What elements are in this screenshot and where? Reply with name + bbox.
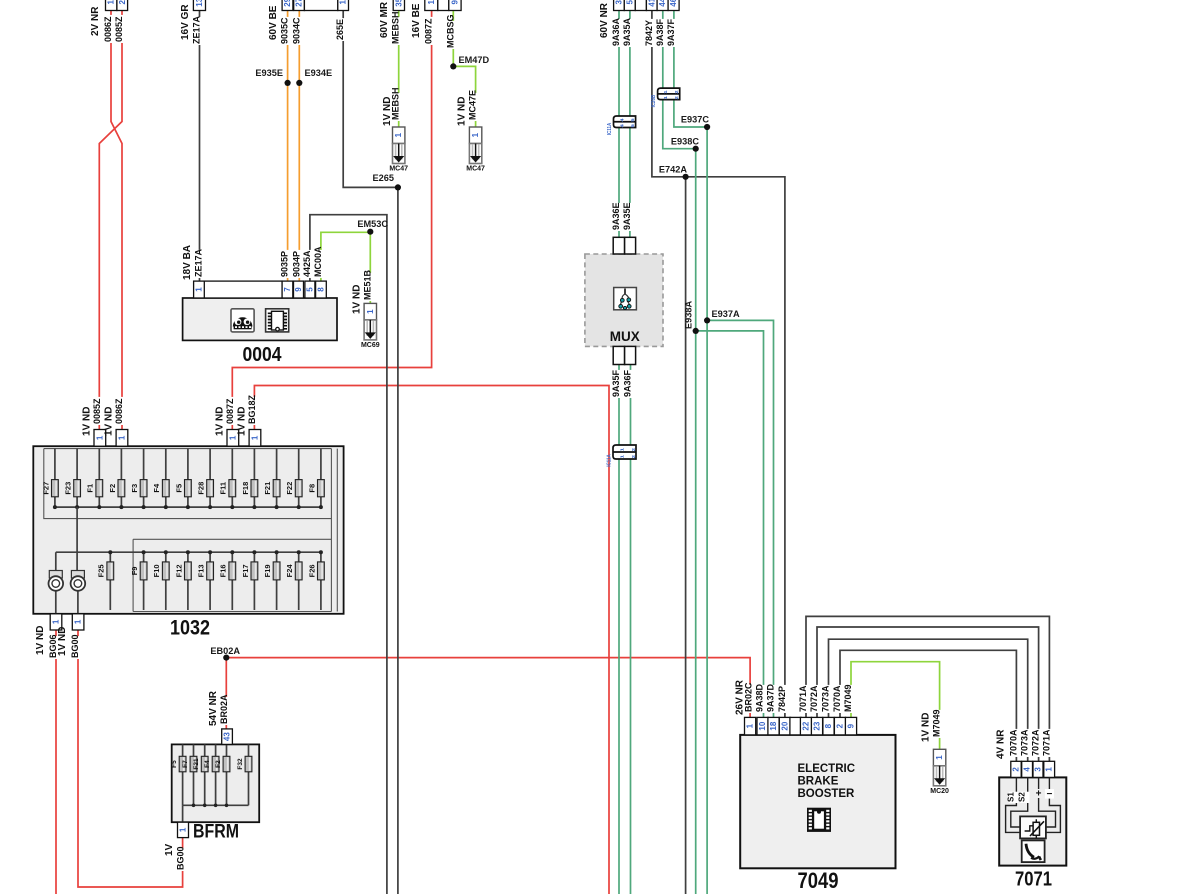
label S1 [1009, 792, 1019, 803]
wire 7072A (7049 pin 23 to 7071 pin 3) [817, 627, 1039, 761]
MUX top pin cells [613, 237, 624, 254]
wire label 9A36E [614, 203, 624, 231]
svg-text:2V NR: 2V NR [90, 6, 101, 36]
wire label 9A36F [626, 370, 636, 398]
wire label BG00 (BFRM) [179, 848, 189, 871]
svg-text:9A36A: 9A36A [611, 17, 621, 46]
wire BG06 (1032 to bottom edge) [55, 630, 57, 894]
component 1032 (body) [33, 446, 343, 614]
svg-text:MC20: MC20 [930, 788, 949, 795]
svg-text:0087Z: 0087Z [225, 398, 235, 424]
splice E938A [693, 328, 699, 334]
wire label ZE17A [195, 17, 205, 45]
svg-text:MCBSG: MCBSG [445, 15, 455, 49]
1032 pin (0087Z) [227, 430, 239, 447]
svg-text:0086Z: 0086Z [103, 16, 113, 42]
fuse F12 [185, 562, 192, 580]
1032 bottom bus [56, 551, 321, 553]
svg-text:9035P: 9035P [280, 251, 290, 277]
fuse F19 [273, 562, 280, 580]
svg-text:3: 3 [1034, 767, 1043, 772]
BFRM fuse wires and bus [182, 744, 184, 805]
wire label 9A36A [614, 19, 624, 47]
svg-text:9A35F: 9A35F [611, 369, 621, 397]
wire label 7073A (7071) [1023, 729, 1033, 757]
svg-text:MC47: MC47 [389, 166, 408, 173]
svg-text:F13: F13 [197, 564, 206, 577]
7049 pin 2 [834, 717, 845, 735]
svg-text:0085Z: 0085Z [114, 16, 124, 42]
splice E935E [285, 80, 291, 86]
wire 9A37F continuation to bottom edge [706, 127, 708, 894]
wire MEBSH (to ground MC47) [398, 11, 400, 128]
svg-text:E938C: E938C [671, 137, 699, 147]
wire label MEBSH (at ground) [394, 93, 404, 121]
svg-text:18V BA: 18V BA [182, 245, 193, 280]
wire 0086Z (top pin 1 to 1032, crosses) [111, 11, 122, 433]
svg-text:IC26B: IC26B [651, 95, 657, 108]
wire label MC47E [471, 93, 481, 121]
svg-text:1: 1 [935, 755, 944, 760]
svg-text:54V NR: 54V NR [208, 690, 219, 726]
wire label BR02A [222, 697, 232, 725]
wire 9A38F continuation to bottom edge [695, 149, 697, 894]
splice E934E [296, 80, 302, 86]
svg-text:23: 23 [813, 721, 822, 730]
0004 pin 8 [316, 281, 327, 298]
svg-text:4: 4 [619, 118, 624, 122]
pin 1 (0087Z) [425, 0, 438, 11]
svg-text:F5: F5 [174, 484, 183, 493]
svg-text:1: 1 [619, 447, 624, 451]
svg-text:IC11A: IC11A [607, 454, 613, 467]
wire BR02A (EB02A to BFRM pin 43) [225, 658, 227, 729]
svg-text:29: 29 [283, 0, 292, 7]
wire 0085Z (top pin 2 to 1032, crosses) [99, 11, 122, 433]
wire label 7072A (7071) [1034, 729, 1044, 757]
svg-text:1: 1 [663, 90, 668, 94]
1032 pin (0086Z) [116, 430, 128, 447]
fuse F22 [295, 480, 302, 497]
wire label ME51B [366, 273, 376, 301]
pin 2 (0085Z) [117, 0, 128, 11]
svg-text:1: 1 [746, 723, 755, 728]
svg-text:1: 1 [394, 132, 403, 137]
svg-text:1V ND: 1V ND [457, 97, 468, 126]
wire label 265E [338, 18, 348, 41]
fuse F21 [273, 480, 280, 497]
wire label 0086Z (at 1032) [117, 397, 127, 425]
svg-text:MC47: MC47 [466, 166, 485, 173]
splice E742A [683, 174, 689, 180]
0004 relay icon [231, 309, 254, 332]
wire label 9035P [283, 250, 293, 278]
svg-text:BG18Z: BG18Z [247, 394, 257, 424]
svg-text:BRAKE: BRAKE [798, 776, 839, 788]
wire label 9A35F [614, 370, 624, 398]
svg-text:2: 2 [1012, 767, 1021, 772]
svg-text:7070A: 7070A [1008, 729, 1018, 756]
svg-text:18: 18 [769, 721, 778, 730]
wire label 0085Z [117, 15, 127, 43]
svg-text:9A36F: 9A36F [623, 369, 633, 397]
svg-text:5: 5 [625, 0, 634, 4]
svg-text:9A35E: 9A35E [622, 202, 632, 230]
wire label 7070A (7071) [1012, 729, 1022, 757]
svg-text:60V BE: 60V BE [268, 5, 279, 40]
svg-text:2: 2 [118, 0, 127, 4]
svg-text:F18: F18 [241, 482, 250, 495]
1032 pin (BG00) [72, 614, 84, 630]
svg-text:16V GR: 16V GR [180, 4, 191, 40]
wire 9A38D (splice E938A to 7049 pin 10) [696, 331, 764, 718]
7071 internal wiring and S1/S2/+/- labels [1006, 777, 1061, 832]
svg-text:4: 4 [619, 123, 624, 127]
fuse F18 [251, 480, 258, 497]
ring terminal 1 (BG06) [55, 552, 57, 630]
svg-text:3: 3 [614, 0, 623, 4]
svg-text:9A35A: 9A35A [622, 17, 632, 46]
fuse F2 [118, 480, 125, 497]
fuse F27 [52, 480, 59, 497]
svg-text:22: 22 [802, 721, 811, 730]
svg-text:E935E: E935E [255, 68, 283, 78]
svg-text:2: 2 [836, 723, 845, 728]
svg-text:1: 1 [471, 132, 480, 137]
MUX network icon [614, 288, 637, 310]
wire label M7049 (at ground) [935, 710, 945, 738]
wire BG00 (1032 to BFRM pin 1) [78, 630, 183, 887]
pin 27 (9034C) [294, 0, 305, 11]
svg-text:27: 27 [295, 0, 304, 7]
wire 9A35A/9A35E (to MUX) [629, 11, 631, 238]
svg-text:2: 2 [631, 454, 636, 458]
fuse F26 [318, 562, 325, 580]
svg-text:1V ND: 1V ND [82, 407, 93, 436]
wire 7842Y/7842P (to 7049 pin 20) [652, 11, 785, 717]
wire label MEBSH [394, 17, 404, 45]
MUX bottom pin cells [613, 346, 624, 364]
label S2 [1020, 792, 1030, 803]
fuse F8 [318, 480, 325, 497]
7049 pin 9 [845, 717, 856, 735]
svg-text:F3: F3 [130, 484, 139, 493]
svg-text:43: 43 [223, 732, 232, 741]
7049 pin 1 [745, 717, 756, 735]
svg-text:0085Z: 0085Z [92, 398, 102, 424]
svg-text:1V ND: 1V ND [57, 627, 68, 656]
svg-text:BR02A: BR02A [219, 694, 229, 724]
svg-text:F2: F2 [108, 484, 117, 493]
wire MC47E (EM47D to ground MC47) [453, 66, 475, 127]
svg-text:1V ND: 1V ND [921, 713, 932, 742]
svg-text:7071A: 7071A [798, 685, 808, 712]
wire BG18Z (1032 to bottom edge) [254, 386, 609, 894]
svg-text:ME51B: ME51B [362, 269, 372, 300]
fuse F25 [107, 562, 114, 580]
pin 1 (265E) [338, 0, 349, 11]
svg-text:7072A: 7072A [1031, 729, 1041, 756]
svg-text:7070A: 7070A [832, 685, 842, 712]
svg-text:F8: F8 [307, 484, 316, 493]
svg-text:−: − [1046, 789, 1052, 800]
svg-text:ZE17A: ZE17A [194, 248, 204, 277]
svg-text:ELECTRIC: ELECTRIC [798, 763, 856, 775]
7071 pin 1 [1044, 761, 1055, 777]
svg-text:M7049: M7049 [843, 684, 853, 712]
wire 9A35F (MUX to bottom edge) [618, 363, 620, 894]
empty pin cell [438, 0, 449, 11]
svg-text:9: 9 [847, 723, 856, 728]
fuse F24 [295, 562, 302, 580]
svg-text:2: 2 [631, 447, 636, 451]
svg-text:9035C: 9035C [280, 17, 290, 44]
svg-text:0004: 0004 [243, 344, 283, 366]
fuse F11 [229, 480, 236, 497]
svg-text:F12: F12 [174, 564, 183, 577]
svg-text:MC00A: MC00A [313, 246, 323, 277]
wire label 7842Y [647, 19, 657, 47]
7071 pin 4 [1022, 761, 1033, 777]
svg-text:1: 1 [117, 435, 126, 440]
wire label 9035C [283, 17, 293, 45]
1032 inner tray outlines [44, 449, 338, 612]
0004 IC icon [266, 309, 289, 332]
svg-text:4V NR: 4V NR [996, 729, 1007, 759]
svg-text:1: 1 [250, 435, 259, 440]
svg-text:F4: F4 [204, 760, 211, 768]
wire F23 to ring terminal [76, 507, 78, 570]
svg-text:9A38D: 9A38D [755, 683, 765, 712]
wire 7070A (7049 pin 2 to 7071 pin 2) [840, 650, 1016, 761]
svg-text:46: 46 [669, 0, 678, 7]
fuse F32 (BFRM) [245, 756, 252, 772]
component MUX (dashed body) [585, 254, 663, 346]
wire 7071A (7049 pin 22 to 7071 pin 1) [806, 616, 1049, 761]
wire label 9034P [295, 250, 305, 278]
svg-text:7049: 7049 [798, 868, 839, 893]
wire 9035C/9035P [287, 11, 289, 282]
svg-text:ZE17A: ZE17A [192, 15, 202, 44]
svg-text:7071A: 7071A [1041, 729, 1051, 756]
svg-text:BG00: BG00 [176, 846, 186, 870]
wire label 7071A (7071) [1045, 729, 1055, 757]
svg-text:E265: E265 [373, 173, 394, 183]
svg-text:F17: F17 [241, 564, 250, 577]
7071 pin 3 [1033, 761, 1043, 777]
svg-text:F32: F32 [237, 758, 244, 770]
svg-text:0086Z: 0086Z [114, 398, 124, 424]
wire label 7070A [835, 685, 845, 713]
svg-text:44: 44 [658, 0, 667, 7]
0004 pin strip with pin 1 [194, 281, 283, 298]
svg-text:F28: F28 [197, 482, 206, 495]
wire M7049 (7049 pin 9 to ground MC20) [851, 662, 940, 750]
svg-text:7072A: 7072A [809, 685, 819, 712]
wire label MC00A [316, 250, 326, 278]
svg-text:1: 1 [179, 827, 188, 832]
0004 pin 9 [294, 281, 304, 298]
wire label 9A35E [625, 203, 635, 231]
fuse F16 [229, 562, 236, 580]
fuse F5 (BFRM) [179, 756, 186, 772]
svg-text:F16: F16 [219, 564, 228, 577]
fuse F2 (BFRM) [223, 756, 230, 772]
svg-text:1: 1 [427, 0, 436, 4]
wire label 7073A [824, 685, 834, 713]
ground MC69 [364, 303, 376, 320]
0004 pin 7 [282, 281, 293, 298]
svg-text:F26: F26 [307, 564, 316, 577]
svg-text:1V ND: 1V ND [237, 407, 248, 436]
svg-text:20: 20 [780, 721, 789, 730]
svg-text:F27: F27 [41, 482, 50, 495]
component 7071 (body) [999, 777, 1066, 865]
wire label 9A38D [758, 685, 768, 713]
svg-text:9A38F: 9A38F [655, 18, 665, 46]
svg-text:7073A: 7073A [1020, 729, 1030, 756]
svg-text:MC69: MC69 [361, 342, 380, 349]
7071 pump icon [1022, 840, 1045, 862]
svg-text:E742A: E742A [659, 165, 687, 175]
pin 41 (7842Y) [646, 0, 657, 11]
component 7049 ELECTRIC BRAKE BOOSTER (body) [740, 735, 895, 868]
wire from splice E742A to bottom edge [685, 177, 687, 894]
splice E265 [395, 184, 401, 190]
svg-text:BFRM: BFRM [193, 822, 239, 843]
svg-text:F23: F23 [64, 482, 73, 495]
svg-text:MC47E: MC47E [468, 90, 478, 120]
wire label 9A37F [669, 19, 679, 47]
svg-text:S1: S1 [1007, 792, 1016, 802]
wire label BG00 [73, 636, 83, 659]
BFRM pin 1 [178, 822, 189, 837]
7049 pin 20 [779, 717, 790, 735]
svg-text:13: 13 [195, 0, 204, 7]
splice E937C [704, 124, 710, 130]
svg-text:BR02C: BR02C [744, 682, 754, 712]
svg-text:MEBSH: MEBSH [391, 11, 401, 44]
ground MC47 [393, 127, 405, 144]
svg-text:F4: F4 [152, 483, 161, 493]
svg-text:60V MR: 60V MR [379, 1, 390, 38]
svg-text:5: 5 [630, 118, 635, 122]
wire label MCBSG [449, 21, 459, 49]
wire label 7071A [801, 685, 811, 713]
svg-text:2: 2 [674, 90, 679, 94]
wire label M7049 [846, 685, 856, 713]
svg-text:10: 10 [758, 721, 767, 730]
splice E938C [693, 146, 699, 152]
0004 pin 5 [305, 281, 315, 298]
7071 pin 2 [1011, 761, 1021, 777]
1032 pin (0085Z) [94, 430, 106, 447]
svg-text:9: 9 [294, 287, 303, 292]
1032 pin (BG06) [50, 614, 62, 630]
fuse F1 [96, 480, 103, 497]
svg-text:1: 1 [52, 619, 61, 624]
wire 9A37D (splice E937A to 7049 pin 18) [707, 320, 773, 717]
wire 9A36F (MUX to bottom edge) [630, 363, 632, 894]
wire label 0086Z [106, 15, 116, 43]
fuse F21 (BFRM) [201, 756, 208, 772]
fuse F9 [140, 562, 147, 580]
splice EM53C [367, 229, 373, 235]
svg-text:1: 1 [663, 96, 668, 100]
wire label 9034C [295, 17, 305, 45]
svg-text:8: 8 [316, 287, 325, 292]
fuse F28 [207, 480, 214, 497]
fuse F5 [185, 480, 192, 497]
splice E937A [704, 317, 710, 323]
wire from splice E265 to bottom edge [397, 187, 399, 894]
svg-text:7842Y: 7842Y [644, 20, 654, 46]
wire label 4425A [305, 250, 315, 278]
svg-text:MEBSH: MEBSH [391, 87, 401, 120]
7049 pin 18 [768, 717, 779, 735]
svg-text:1: 1 [339, 0, 348, 4]
wire 9034C/9034P [298, 11, 300, 282]
svg-text:2: 2 [674, 96, 679, 100]
svg-text:E937A: E937A [712, 309, 740, 319]
svg-text:5: 5 [630, 123, 635, 127]
svg-text:F22: F22 [285, 482, 294, 495]
svg-text:F25: F25 [97, 564, 106, 577]
svg-text:1: 1 [366, 309, 375, 314]
svg-text:1: 1 [1045, 767, 1054, 772]
svg-text:35: 35 [394, 0, 403, 7]
pin 9 (MCBSG) [449, 0, 461, 11]
wire label BG06 [51, 636, 61, 659]
svg-text:60V NR: 60V NR [599, 2, 610, 38]
wire 7073A (7049 pin 8 to 7071 pin 4) [829, 639, 1028, 761]
svg-text:F19: F19 [263, 564, 272, 577]
1032 top fuse row wires and bus [54, 449, 56, 508]
wire label 0087Z (at 1032) [228, 397, 238, 425]
svg-text:S2: S2 [1018, 792, 1027, 802]
7071 regulator icon [1020, 816, 1046, 838]
svg-text:9A37D: 9A37D [766, 683, 776, 712]
component BFRM (body) [172, 744, 260, 822]
wire ZE17A (16V GR to 0004 pin 1) [199, 11, 201, 282]
svg-text:8: 8 [824, 723, 833, 728]
svg-text:1V ND: 1V ND [215, 407, 226, 436]
svg-text:9034P: 9034P [291, 251, 301, 277]
svg-text:7842P: 7842P [777, 686, 787, 712]
svg-text:1: 1 [195, 287, 204, 292]
svg-text:265E: 265E [335, 19, 345, 40]
pin 29 (9035C) [282, 0, 293, 11]
svg-text:F1: F1 [86, 484, 95, 493]
ring terminal 2 (BG00) [77, 591, 79, 631]
fuse F7 (BFRM) [190, 756, 197, 772]
wire label BG18Z (at 1032) [250, 397, 260, 425]
7049 empty pin cell [790, 717, 801, 735]
wire label 0085Z (at 1032) [95, 397, 105, 425]
splice EM47D [450, 63, 456, 69]
fuse F4 [162, 480, 169, 497]
svg-text:1032: 1032 [170, 617, 210, 640]
svg-text:MUX: MUX [610, 328, 641, 344]
svg-text:1V ND: 1V ND [35, 626, 46, 655]
svg-text:5: 5 [305, 287, 314, 292]
wire 265E (to splice E265) [343, 11, 398, 187]
wire MC00A (0004 pin 8 to splice EM53C) [321, 232, 370, 281]
wire label 9A35A [625, 19, 635, 47]
pin 35 (MEBSH) [393, 0, 404, 11]
pin 44 (9A38F) [657, 0, 668, 11]
fuse F4 (BFRM) [212, 756, 219, 772]
